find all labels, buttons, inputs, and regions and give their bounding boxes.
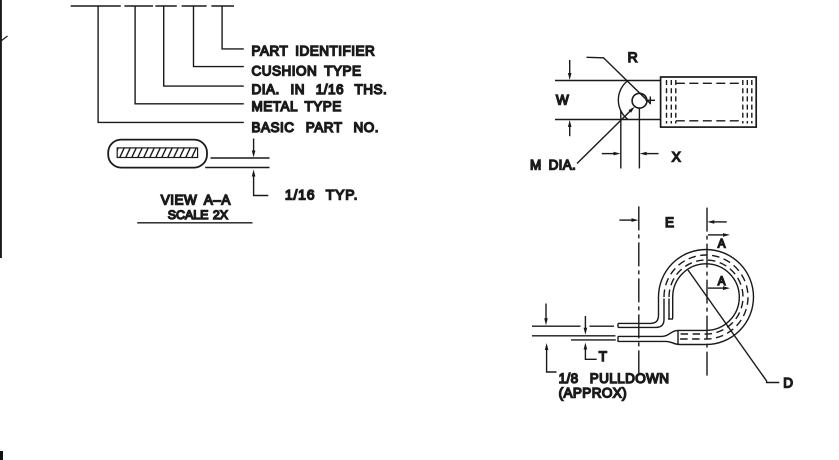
border corner mark bottom-left xyxy=(0,451,3,460)
svg-text:METAL TYPE: METAL TYPE xyxy=(252,99,342,114)
flattened-position line L2 xyxy=(532,335,616,337)
E dimension arrow right (points left) xyxy=(713,221,727,223)
cushion end cap at band xyxy=(677,330,679,344)
svg-text:A: A xyxy=(718,239,726,251)
leader: basic part no. xyxy=(98,6,244,122)
leader: metal type xyxy=(135,6,244,104)
E dimension arrow left (points right) xyxy=(619,219,632,221)
top bar segment 3 xyxy=(155,5,176,7)
W dimension arrow (down) xyxy=(569,60,571,74)
X extension line (tab edge) xyxy=(620,110,622,169)
X extension line (hole centre) xyxy=(638,108,640,168)
svg-text:DIA. IN 1/16 THS.: DIA. IN 1/16 THS. xyxy=(252,82,388,97)
hidden metal band arc r37 (dashed) xyxy=(669,260,743,334)
arrow up to lower dim line + corner leader xyxy=(252,170,256,177)
svg-text:1/8 PULLDOWN: 1/8 PULLDOWN xyxy=(559,371,670,386)
hidden cushion edge verticals right xyxy=(743,80,752,124)
T arrow up + bracket xyxy=(584,343,588,350)
svg-text:PART IDENTIFIER: PART IDENTIFIER xyxy=(252,44,376,59)
upper leg bottom edge and bend xyxy=(618,299,664,328)
border: left edge line of sheet xyxy=(0,0,2,258)
upper leg left end cap xyxy=(617,323,619,327)
underline under view title xyxy=(137,222,252,224)
tick mark on left border xyxy=(1,36,8,41)
leader: dia in 1/16 ths xyxy=(164,6,244,86)
svg-text:A: A xyxy=(718,276,726,288)
pulldown arrow up + bracket xyxy=(545,343,549,350)
pulldown arrow down xyxy=(545,304,547,320)
T arrow down xyxy=(584,316,586,329)
loop outer contour: upper leg top edge, bend, outer ring, bottom edge, lower leg bottom edge xyxy=(618,250,754,345)
leader: D xyxy=(688,270,779,383)
cushion end cap in throat xyxy=(668,318,673,320)
W dimension arrow (up) xyxy=(569,126,571,136)
X arrow left (points right) xyxy=(602,153,615,155)
svg-text:R: R xyxy=(628,49,638,65)
tab bottom edge + W extension line xyxy=(555,119,661,121)
top bar segment 5 xyxy=(211,5,234,7)
svg-text:X: X xyxy=(672,149,681,164)
flattened-position line L1 xyxy=(532,325,581,327)
svg-text:SCALE 2X: SCALE 2X xyxy=(168,208,228,222)
mounting hole M xyxy=(632,93,647,108)
dim line lower (1/16 typ) xyxy=(205,167,269,169)
cushion hidden edge short vertical in throat xyxy=(668,299,670,319)
svg-text:VIEW A–A: VIEW A–A xyxy=(161,192,231,207)
hidden cushion edge horizontals xyxy=(676,83,743,121)
top bar segment 4 xyxy=(182,5,207,7)
leader: R xyxy=(587,57,651,103)
centerline through bolt hole xyxy=(638,206,640,375)
flattened-position line L3 xyxy=(571,339,616,341)
tab rounded end arc xyxy=(618,81,628,120)
hidden cushion edge verticals left xyxy=(667,80,676,124)
svg-text:E: E xyxy=(665,215,674,230)
svg-text:M DIA.: M DIA. xyxy=(530,158,576,173)
lower leg left end cap xyxy=(617,336,619,342)
tab top edge + W extension line xyxy=(555,80,661,82)
clamp body outline (top view rectangle) xyxy=(661,77,757,127)
svg-text:CUSHION TYPE: CUSHION TYPE xyxy=(252,64,362,79)
svg-text:(APPROX): (APPROX) xyxy=(559,386,627,401)
svg-text:BASIC PART NO.: BASIC PART NO. xyxy=(252,120,380,135)
leader: cushion type xyxy=(194,6,244,67)
arrow down to upper dim line xyxy=(253,139,255,152)
svg-text:1/16 TYP.: 1/16 TYP. xyxy=(285,186,358,202)
part number breakdown: top bar segment 1 xyxy=(71,5,121,7)
view A-A: metal strip (hatched bar) xyxy=(117,148,197,158)
hidden metal band arc r42 (dashed) xyxy=(664,255,748,339)
leader: part identifier xyxy=(222,6,244,49)
leader: M DIA. with arrowhead xyxy=(577,109,633,164)
svg-text:T: T xyxy=(599,349,607,364)
top bar segment 2 xyxy=(124,5,153,7)
svg-text:W: W xyxy=(556,93,569,108)
loop inner contour: lower leg top edge, cushion band top, inner ring xyxy=(618,264,739,337)
section arrow A upper (points right) xyxy=(708,234,724,236)
section arrow A lower (points right) xyxy=(708,287,724,289)
view A-A: cushion outline (rounded rect) xyxy=(108,140,207,168)
X arrow right (points left) xyxy=(646,153,659,155)
centerline through loop centre (section A-A cut) xyxy=(706,208,708,376)
svg-text:D: D xyxy=(783,376,793,391)
hole center mark + xyxy=(646,99,656,101)
dim line upper (1/16 typ) xyxy=(211,157,270,159)
